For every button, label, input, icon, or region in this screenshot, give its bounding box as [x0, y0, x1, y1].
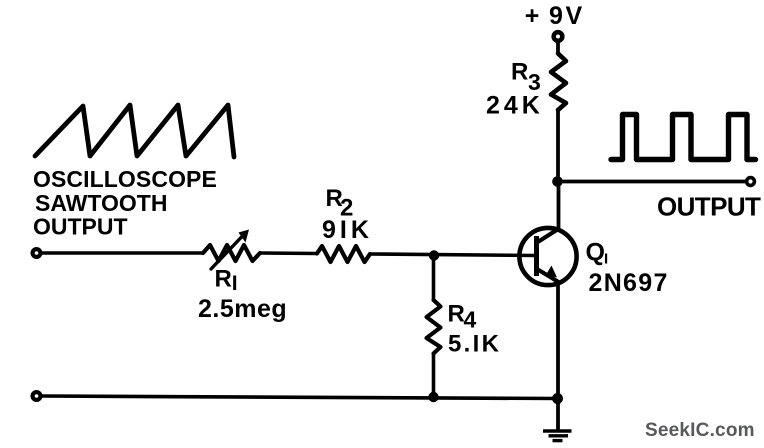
ground bar 3: [553, 439, 563, 442]
transistor Q1 emitter line: [537, 269, 559, 282]
wire R2 to transistor base: [370, 254, 536, 256]
svg-text:I: I: [604, 251, 608, 268]
sawtooth waveform icon: [35, 105, 234, 157]
svg-text:9V: 9V: [549, 2, 585, 30]
wire +9V to R3: [556, 41, 560, 54]
node junction emitter/bottom rail: [552, 393, 563, 404]
wire R3 to collector node: [556, 110, 560, 182]
svg-text:R: R: [448, 301, 465, 328]
wire R4 to bottom rail: [432, 354, 436, 398]
svg-text:OUTPUT: OUTPUT: [33, 214, 128, 240]
ground bar 1: [543, 429, 572, 432]
wire collector up to node: [557, 182, 561, 229]
svg-text:SeekIC.com: SeekIC.com: [645, 420, 755, 441]
wire junction down to R4: [432, 256, 436, 301]
wire input to R1: [41, 251, 203, 255]
svg-text:R: R: [215, 266, 232, 293]
node junction R4/bottom rail: [428, 392, 438, 402]
R1 wiper arrowhead: [239, 230, 250, 243]
svg-text:9IK: 9IK: [322, 216, 373, 244]
power terminal +9V: [554, 32, 563, 41]
svg-text:SAWTOOTH: SAWTOOTH: [35, 190, 167, 216]
resistor R1 (variable) zigzag: [203, 245, 260, 261]
square wave icon: [611, 115, 756, 160]
svg-text:24K: 24K: [486, 92, 544, 120]
node junction R2/R4/base: [429, 250, 439, 260]
ground bar 2: [549, 434, 569, 437]
svg-text:Q: Q: [586, 239, 605, 267]
svg-text:OSCILLOSCOPE: OSCILLOSCOPE: [33, 166, 217, 192]
resistor R4 zigzag: [427, 300, 441, 354]
svg-text:2N697: 2N697: [589, 269, 669, 297]
R1 wiper arrow shaft: [211, 237, 242, 270]
transistor Q1 emitter arrowhead: [546, 266, 557, 278]
wire R1 to R2: [260, 251, 317, 255]
bottom rail wire: [41, 396, 558, 399]
svg-text:4: 4: [464, 307, 477, 333]
transistor Q1 base bar: [534, 236, 539, 276]
resistor R2 zigzag: [317, 246, 370, 262]
resistor R3 zigzag: [551, 54, 566, 111]
transistor Q1 collector line: [537, 229, 559, 243]
node junction collector/output: [552, 176, 563, 187]
wire emitter down to bottom rail: [556, 283, 560, 399]
bottom rail terminal (bottom left): [33, 392, 41, 400]
output wire: [558, 180, 747, 184]
svg-text:+: +: [525, 2, 540, 30]
svg-text:I: I: [232, 272, 238, 295]
input terminal (top left): [33, 249, 41, 257]
svg-text:5.IK: 5.IK: [448, 331, 501, 358]
svg-text:R: R: [511, 59, 528, 86]
svg-text:OUTPUT: OUTPUT: [657, 192, 761, 222]
svg-text:2.5meg: 2.5meg: [198, 295, 287, 323]
transistor Q1 circle: [519, 228, 576, 285]
output terminal: [747, 178, 755, 186]
ground wire: [556, 399, 560, 431]
